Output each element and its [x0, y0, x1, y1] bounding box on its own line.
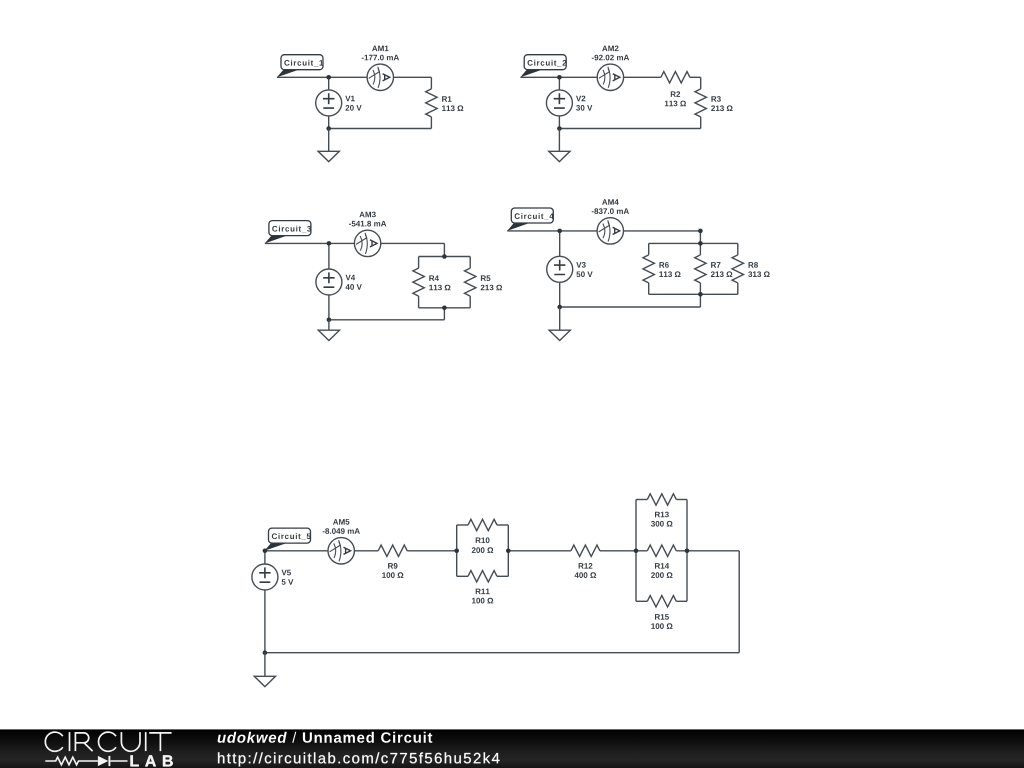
label V4 value	[346, 275, 362, 290]
resistor R4	[413, 257, 424, 308]
label V2 value	[576, 96, 592, 111]
label R1 value	[442, 96, 463, 111]
wire box1 left riser	[456, 525, 458, 576]
label R3 value	[711, 96, 732, 111]
wire to ground	[558, 129, 560, 152]
wire bottom bus	[419, 307, 471, 309]
resistor R6	[643, 243, 654, 294]
resistor R2	[661, 72, 690, 83]
label R2 value	[665, 91, 686, 106]
wire to ground	[559, 307, 561, 330]
resistor R3	[695, 77, 706, 128]
voltage source V1	[316, 90, 342, 116]
node bottom bus junction	[698, 292, 703, 297]
label AM2 value	[592, 46, 629, 61]
logo LAB text	[131, 755, 173, 766]
ammeter AM2	[597, 64, 623, 90]
wire circuit4 bottom	[560, 306, 701, 308]
resistor R1	[426, 77, 437, 128]
node bottom bus junction	[442, 306, 447, 311]
node V2 bottom junction	[557, 126, 562, 131]
ammeter AM3	[354, 230, 380, 256]
wire to ground	[328, 129, 330, 152]
wire top bus	[419, 256, 471, 258]
label V5 value	[282, 570, 294, 585]
wire V4 branch	[328, 243, 330, 319]
node V3 top junction	[557, 229, 562, 234]
node V5 top junction	[263, 549, 268, 554]
label R10 value	[472, 537, 493, 553]
ground	[318, 330, 339, 340]
label AM3 value	[349, 212, 386, 227]
node box2 left junction	[634, 549, 639, 554]
voltage source V2	[546, 90, 572, 116]
wire R13 lead left	[636, 499, 647, 501]
node V4 top junction	[327, 241, 332, 246]
wire circuit3 bottom	[329, 319, 445, 321]
ground	[549, 330, 570, 340]
node box1 left junction	[454, 549, 459, 554]
wire to parallel bus	[443, 243, 445, 256]
wire R11 lead right	[497, 575, 508, 577]
wire R10 lead right	[497, 524, 508, 526]
ground	[318, 151, 339, 161]
wire circuit5 bottom	[265, 652, 739, 654]
wire V2 branch	[558, 77, 560, 128]
label AM1 value	[362, 46, 399, 61]
label R12 value	[575, 563, 597, 578]
ammeter AM5	[328, 538, 354, 564]
wire circuit5 seg2	[407, 550, 457, 552]
voltage source V3	[547, 256, 573, 282]
resistor R5	[465, 257, 476, 308]
node top bus junction	[442, 254, 447, 259]
wire bus to bottom	[699, 294, 701, 307]
wire R11 lead left	[457, 575, 468, 577]
node ammeter out junction	[698, 229, 703, 234]
wire right drop	[738, 551, 740, 653]
label R13 value	[651, 512, 673, 527]
node V3 bottom junction	[557, 305, 562, 310]
wire box2 right riser	[686, 500, 688, 602]
label R4 value	[429, 275, 450, 290]
resistor R8	[732, 243, 743, 294]
label R6 value	[659, 262, 680, 277]
wire circuit5 seg1	[264, 550, 378, 552]
node V1 top junction	[326, 75, 331, 80]
wire circuit5 seg3	[508, 550, 571, 552]
wire circuit3 top	[265, 242, 445, 244]
wire bus to bottom	[443, 308, 445, 320]
footer url text	[218, 752, 500, 766]
wire circuit5 seg4	[600, 550, 647, 552]
voltage source V4	[316, 269, 342, 295]
wire box2 left riser	[635, 500, 637, 602]
wire box1 right riser	[507, 525, 509, 576]
voltage source V5	[252, 564, 278, 590]
resistor R10	[468, 519, 497, 530]
logo CIRCUIT wordmark	[45, 732, 171, 751]
node box1 right junction	[506, 549, 511, 554]
wire V3 branch	[559, 231, 561, 307]
node V5 bottom junction	[263, 650, 268, 655]
wire top bus	[649, 242, 738, 244]
net flag Circuit_2	[520, 55, 566, 78]
wire circuit2 top left	[520, 76, 661, 78]
node V2 top junction	[557, 75, 562, 80]
ground	[254, 676, 275, 686]
resistor R15	[647, 596, 676, 607]
label R9 value	[382, 563, 403, 578]
wire circuit2 top right	[690, 76, 701, 78]
wire V5 branch	[264, 551, 266, 653]
wire circuit2 bottom	[559, 128, 700, 130]
resistor R13	[647, 494, 676, 505]
footer title text	[218, 732, 433, 743]
wire R15 lead right	[676, 600, 687, 602]
net flag Circuit_5	[264, 528, 310, 551]
resistor R14	[647, 545, 676, 556]
wire bottom bus	[649, 293, 738, 295]
node box2 right junction	[685, 549, 690, 554]
label R8 value	[748, 262, 770, 277]
resistor R9	[378, 545, 407, 556]
net flag Circuit_3	[265, 221, 311, 244]
node V4 bottom junction	[327, 318, 332, 323]
resistor R7	[695, 243, 706, 294]
node V1 bottom junction	[326, 126, 331, 131]
wire to ground	[328, 320, 330, 330]
wire to parallel bus	[699, 231, 701, 244]
label AM4 value	[592, 199, 629, 214]
wire circuit1 top	[277, 76, 432, 78]
net flag Circuit_4	[507, 208, 554, 231]
label R11 value	[472, 589, 493, 604]
wire circuit5 seg5	[676, 550, 739, 552]
wire V1 branch	[328, 77, 330, 128]
wire circuit4 top	[507, 230, 700, 232]
node top bus junction	[698, 241, 703, 246]
label V1 value	[345, 96, 361, 111]
label V3 value	[576, 262, 592, 277]
resistor R11	[468, 571, 497, 582]
ground	[549, 151, 570, 161]
label R5 value	[481, 275, 502, 290]
net flag Circuit_1	[277, 55, 323, 78]
label R14 value	[651, 563, 672, 578]
logo resistor-diode symbol	[45, 756, 127, 766]
label R15 value	[651, 614, 672, 629]
label AM5 value	[323, 519, 360, 534]
resistor R12	[571, 545, 600, 556]
wire R13 lead right	[676, 499, 687, 501]
wire R15 lead left	[636, 600, 647, 602]
wire R10 lead left	[457, 524, 468, 526]
ammeter AM4	[597, 218, 623, 244]
ammeter AM1	[367, 64, 393, 90]
label R7 value	[711, 262, 732, 277]
wire circuit1 bottom	[329, 128, 432, 130]
wire to ground	[264, 653, 266, 677]
